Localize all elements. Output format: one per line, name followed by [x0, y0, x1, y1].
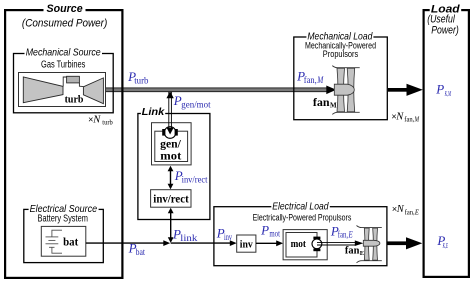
svg-text:M: M	[414, 116, 420, 124]
svg-text:(Consumed Power): (Consumed Power)	[22, 18, 108, 30]
svg-text:E: E	[360, 250, 364, 257]
svg-text:Propulsors: Propulsors	[323, 49, 359, 59]
svg-text:bat: bat	[136, 247, 146, 257]
svg-text:Mechanical Source: Mechanical Source	[26, 47, 101, 59]
svg-text:fan: fan	[313, 95, 330, 109]
svg-text:bat: bat	[63, 234, 78, 248]
svg-text:K,E: K,E	[442, 243, 448, 250]
svg-text:fan: fan	[345, 246, 360, 257]
svg-text:gen/: gen/	[160, 138, 182, 150]
svg-text:inv: inv	[224, 232, 232, 242]
svg-text:mot: mot	[269, 229, 280, 239]
svg-text:fan,: fan,	[338, 230, 348, 240]
svg-text:Source: Source	[47, 3, 83, 15]
svg-text:fan,: fan,	[405, 209, 415, 217]
svg-text:Gas Turbines: Gas Turbines	[41, 60, 85, 71]
svg-text:N: N	[92, 114, 101, 125]
svg-text:gen/mot: gen/mot	[181, 100, 211, 110]
svg-text:N: N	[396, 204, 405, 215]
svg-text:M: M	[330, 101, 337, 109]
svg-text:fan,: fan,	[304, 75, 317, 85]
svg-text:K,M: K,M	[444, 91, 451, 98]
svg-text:turb: turb	[134, 75, 149, 85]
svg-text:turb: turb	[102, 119, 113, 127]
svg-text:inv: inv	[240, 239, 253, 251]
svg-text:E: E	[348, 230, 353, 240]
svg-text:inv/rect: inv/rect	[182, 175, 208, 185]
svg-text:mot: mot	[291, 238, 307, 250]
svg-text:M: M	[316, 75, 323, 85]
svg-text:Electrical Load: Electrical Load	[272, 200, 329, 212]
svg-text:Battery System: Battery System	[38, 214, 88, 225]
svg-text:mot: mot	[160, 150, 181, 162]
svg-text:turb: turb	[65, 94, 84, 106]
svg-text:inv/rect: inv/rect	[153, 193, 189, 205]
svg-text:N: N	[395, 111, 404, 122]
svg-text:link: link	[180, 233, 198, 243]
svg-text:P: P	[260, 222, 269, 237]
svg-text:Power): Power)	[431, 25, 459, 37]
svg-text:Electrically-Powered Propulsor: Electrically-Powered Propulsors	[253, 212, 352, 222]
svg-text:fan,: fan,	[404, 116, 414, 124]
svg-text:P: P	[435, 81, 444, 96]
svg-text:E: E	[414, 209, 420, 217]
svg-text:Link: Link	[142, 106, 166, 118]
